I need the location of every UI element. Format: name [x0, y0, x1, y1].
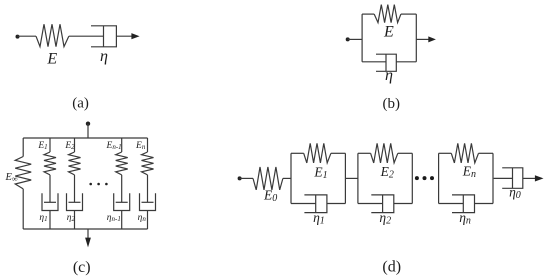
svg-text:E1: E1: [37, 141, 47, 151]
wire right vertical (b): [415, 14, 417, 62]
svg-text:ηn: ηn: [138, 213, 147, 223]
wire: [121, 138, 123, 152]
dashpot eta n cup (c): [140, 193, 156, 210]
dashpot eta n-1 cup (c): [114, 193, 130, 210]
Kelvin box n (d): [439, 143, 493, 212]
dashpot eta0 (d) cylinder: [502, 168, 523, 189]
wire right vertical: [411, 153, 413, 203]
Kelvin box 2 (d): [358, 143, 412, 212]
spring En (c): [142, 152, 154, 175]
wire: [398, 152, 413, 154]
node input terminal (d): [238, 176, 242, 180]
spring E0 (d): [253, 167, 283, 190]
svg-text:E2: E2: [380, 164, 394, 181]
dashpot eta2 cup (c): [67, 193, 83, 210]
wire: [147, 175, 149, 202]
wire from box n to eta0 (d): [494, 177, 513, 179]
wire: [49, 138, 51, 152]
branch n-1 (c): [114, 138, 130, 229]
wire: [87, 229, 89, 239]
dashpot eta n (d) piston: [462, 195, 464, 213]
svg-text:E2: E2: [64, 141, 75, 151]
svg-text:η1: η1: [39, 213, 47, 223]
arrow (b) output: [428, 36, 436, 42]
spring E2 (d): [371, 143, 398, 163]
dashpot eta2 piston (c): [69, 201, 81, 203]
wire: [401, 13, 416, 15]
spring E (a): [36, 24, 69, 46]
spring En-1 (c): [116, 152, 128, 175]
wire: [479, 152, 494, 154]
dashpot eta (b) cylinder: [376, 54, 396, 71]
wire left vertical (b): [361, 14, 363, 62]
wire: [147, 138, 149, 152]
svg-text:(c): (c): [73, 259, 91, 276]
wire E-infinity branch top stub (c): [22, 138, 24, 157]
dashpot eta2 (d) piston: [382, 195, 384, 213]
svg-text:E: E: [383, 23, 394, 40]
dashpot eta1 (d) piston: [315, 195, 317, 213]
wire: [74, 175, 76, 202]
wire: [240, 177, 253, 179]
wire: [358, 152, 371, 154]
svg-text:En: En: [462, 164, 476, 181]
svg-text:(a): (a): [72, 96, 89, 112]
wire: [416, 38, 429, 40]
wire: [475, 203, 494, 205]
node input terminal (b): [346, 37, 350, 41]
dashpot eta (a) cylinder: [91, 26, 116, 47]
wire: [348, 38, 362, 40]
branch n (c): [140, 138, 156, 229]
wire right vertical: [492, 153, 494, 203]
ellipsis dots (c): [89, 183, 107, 186]
spring E2 (c): [69, 152, 81, 175]
wire: [362, 13, 374, 15]
wire: [116, 35, 132, 37]
spring E-infinity (c): [15, 157, 31, 189]
wire: [439, 152, 452, 154]
dashpot eta1 piston (c): [44, 201, 56, 203]
wire: [18, 35, 37, 37]
wire: [327, 203, 346, 205]
svg-text:En: En: [135, 141, 146, 151]
dashpot eta n (d) cylinder: [452, 195, 475, 213]
branch 1 (c): [42, 138, 58, 229]
Kelvin box 1 (d): [291, 143, 345, 212]
svg-text:η0: η0: [509, 184, 521, 201]
wire left vertical: [357, 153, 359, 203]
dashpot eta n-1 piston (c): [116, 201, 128, 203]
wire: [49, 175, 51, 202]
wire: [121, 211, 123, 230]
svg-text:E0: E0: [263, 188, 277, 205]
svg-text:E: E: [46, 50, 57, 67]
wire: [523, 177, 536, 179]
svg-text:(b): (b): [383, 96, 401, 112]
wire: [358, 203, 383, 205]
wire: [439, 203, 464, 205]
ellipsis dots (d): [415, 176, 434, 180]
wire: [396, 61, 416, 63]
spring E1 (c): [44, 152, 56, 175]
wire: [49, 211, 51, 230]
wire: [74, 138, 76, 152]
node input terminal (a): [16, 35, 20, 39]
arrow (c) output: [85, 238, 91, 248]
svg-text:η2: η2: [67, 213, 76, 223]
dashpot eta (b) piston: [385, 54, 387, 71]
wire right vertical: [344, 153, 346, 203]
svg-text:η: η: [385, 67, 393, 84]
wire: [147, 211, 149, 230]
svg-text:(d): (d): [382, 259, 401, 276]
wire: [291, 152, 304, 154]
svg-text:E1: E1: [313, 165, 327, 182]
wire between box1 and box2 (d): [345, 177, 358, 179]
wire: [394, 203, 413, 205]
spring E1 (d): [304, 143, 331, 163]
wire left vertical: [290, 153, 292, 203]
wire: [69, 35, 104, 37]
wire: [283, 177, 291, 179]
dashpot eta n piston (c): [142, 201, 154, 203]
wire bottom bus (c): [23, 228, 147, 230]
arrow (d) output: [535, 175, 544, 181]
svg-text:E∞: E∞: [5, 172, 18, 184]
wire: [121, 175, 123, 202]
dashpot eta1 cup (c): [42, 193, 58, 210]
wire: [331, 152, 346, 154]
dashpot eta1 (d) cylinder: [304, 195, 327, 213]
wire E-infinity branch bottom stub (c): [22, 189, 24, 229]
spring E (b): [374, 5, 401, 23]
wire: [87, 124, 89, 138]
svg-text:η: η: [100, 48, 108, 65]
wire: [291, 203, 316, 205]
branch 2 (c): [67, 138, 83, 229]
node top terminal (c): [86, 122, 90, 126]
wire: [74, 211, 76, 230]
svg-text:En-1: En-1: [106, 141, 122, 151]
svg-text:ηn-1: ηn-1: [107, 213, 121, 223]
dashpot eta2 (d) cylinder: [371, 195, 394, 213]
wire: [362, 61, 386, 63]
wire left vertical: [438, 153, 440, 203]
arrow (a) output: [131, 33, 139, 39]
wire top bus (c): [23, 137, 147, 139]
dashpot eta (a) piston: [103, 26, 105, 47]
spring En (d): [451, 143, 478, 163]
dashpot eta0 (d) piston: [512, 168, 514, 189]
